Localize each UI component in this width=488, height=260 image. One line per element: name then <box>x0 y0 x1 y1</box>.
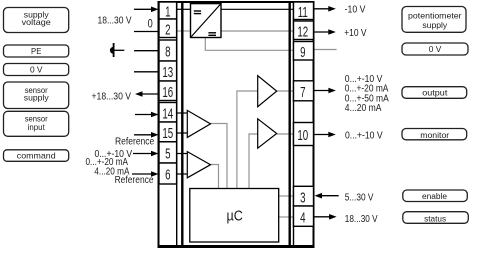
svg-text:5...30 V: 5...30 V <box>345 192 374 203</box>
terminal number 7 <box>300 84 305 101</box>
terminal cell 2 <box>159 19 177 38</box>
block bottom thick edge <box>158 245 315 248</box>
svg-text:1: 1 <box>165 4 170 21</box>
label 0...+-10 V (terminal 10) <box>345 130 383 141</box>
svg-text:+18...30 V: +18...30 V <box>92 91 132 102</box>
wire into terminal 14 <box>135 114 153 116</box>
label 0 (terminal 2) <box>148 19 153 31</box>
svg-text:7: 7 <box>300 84 305 101</box>
PE symbol <box>113 43 115 57</box>
svg-text:15: 15 <box>162 125 173 142</box>
svg-text:6: 6 <box>165 167 170 184</box>
label box: status <box>403 212 469 224</box>
label text: command <box>17 151 56 161</box>
label text: 0 V left <box>30 64 43 74</box>
wire: DC/DC to terminal 12 <box>221 30 294 32</box>
svg-text:supply: supply <box>24 93 50 103</box>
svg-text:supply: supply <box>422 20 448 30</box>
main block outline <box>159 2 314 247</box>
label box: PE <box>4 45 69 57</box>
svg-text:18...30 V: 18...30 V <box>97 15 132 26</box>
label Reference (terminal 15) <box>115 136 154 147</box>
terminal cell 12 <box>294 21 314 40</box>
svg-text:output: output <box>422 88 448 98</box>
wire: uC up to amp A4 input <box>249 134 258 189</box>
wire into terminal 8 <box>134 50 159 52</box>
terminal number 14 <box>162 105 173 122</box>
terminal number 11 <box>298 4 308 21</box>
label text: sensor supply <box>25 86 48 96</box>
svg-text:18...30 V: 18...30 V <box>345 213 378 224</box>
wire out of terminal 11 <box>314 8 331 10</box>
wire: amp A2 output down to uC <box>211 165 219 189</box>
svg-text:12: 12 <box>297 23 308 40</box>
wire: uC to terminal 3 <box>279 195 294 197</box>
terminal number 9 <box>300 44 305 61</box>
terminal number 8 <box>165 44 170 61</box>
label 5...30 V (terminal 3) <box>345 192 374 203</box>
label text: monitor <box>420 130 449 140</box>
svg-text:Reference: Reference <box>115 175 154 186</box>
label text: supply voltage <box>24 9 50 19</box>
wire out of terminal 16 <box>140 93 159 95</box>
svg-text:status: status <box>424 213 446 223</box>
label box: 0 V right <box>402 43 468 55</box>
svg-text:0 V: 0 V <box>30 64 43 74</box>
terminal cell 16 <box>159 81 177 101</box>
label text: potentiometer supply <box>408 10 462 20</box>
amp A3 (output 7) <box>258 76 277 107</box>
svg-text:monitor: monitor <box>420 130 449 140</box>
svg-text:potentiometer: potentiometer <box>408 10 462 20</box>
wire into terminal 1 <box>134 8 153 10</box>
wire: terminal 1 stub to DC/DC <box>177 8 191 10</box>
wire: terminal 6 stub to amp A2 <box>177 173 188 175</box>
amp A2 (inputs 5/6) <box>187 152 210 178</box>
wire: DC/DC bottom to terminal 9 <box>205 38 293 51</box>
svg-text:14: 14 <box>162 105 173 122</box>
label 4...20 mA (terminal 7) <box>345 103 383 114</box>
amp A1 (inputs 14/15) <box>187 110 210 137</box>
microcontroller uC box <box>190 189 279 243</box>
wire out of terminal 10 <box>314 134 331 136</box>
terminal number 16 <box>162 84 173 101</box>
svg-text:13: 13 <box>162 64 173 81</box>
label text: PE <box>31 47 42 56</box>
svg-text:4...20 mA: 4...20 mA <box>345 103 383 114</box>
terminal cell 9 <box>294 42 314 61</box>
wire: amp A1 output down to uC <box>211 124 228 189</box>
wire: terminal 14 stub to amp A1 <box>177 112 188 114</box>
svg-text:command: command <box>17 151 56 161</box>
terminal cell 11 <box>294 2 314 20</box>
label text: output <box>422 88 448 98</box>
terminal cell 4 <box>294 206 314 226</box>
label text: sensor input <box>25 114 48 124</box>
wire: uC up to amp A3 input <box>237 91 258 189</box>
wire out of terminal 4 <box>314 216 332 218</box>
wire: terminal 2 stub to DC/DC <box>177 30 191 32</box>
wire: terminal 15 stub to amp A1 <box>177 132 188 134</box>
wire into terminal 6 <box>132 173 153 175</box>
svg-text:11: 11 <box>298 4 308 21</box>
label box: monitor <box>402 129 467 140</box>
wire: amp A4 output to terminal 10 <box>277 133 294 135</box>
svg-text:3: 3 <box>300 189 305 206</box>
label 18...30 V (terminal 1) <box>97 15 132 26</box>
label 0...+-10 V (terminal 5) <box>94 148 132 159</box>
label box: output <box>402 87 467 99</box>
label box: command <box>4 150 69 162</box>
label text: status <box>424 213 446 223</box>
svg-text:0...+-10 V: 0...+-10 V <box>345 130 383 141</box>
label box: sensor supply <box>4 82 69 109</box>
terminal cell 5 <box>159 142 177 163</box>
wire into terminal 13 <box>134 71 159 73</box>
svg-text:2: 2 <box>165 21 170 38</box>
svg-text:-10 V: -10 V <box>345 4 367 15</box>
amp A4 (output 10) <box>258 119 277 148</box>
svg-text:16: 16 <box>162 84 173 101</box>
svg-text:10: 10 <box>297 127 308 144</box>
terminal number 13 <box>162 64 173 81</box>
label 0...+-10 V (terminal 7) <box>345 73 383 84</box>
terminal number 5 <box>165 146 170 163</box>
label Reference (terminal 6) <box>115 175 154 186</box>
terminal cell 3 <box>294 186 314 206</box>
label 0...+-20 mA (terminal 7) <box>345 83 389 94</box>
svg-text:+10 V: +10 V <box>344 27 367 38</box>
wire: DC/DC to terminal 11 <box>221 8 294 10</box>
svg-text:0 V: 0 V <box>429 44 442 54</box>
terminal cell 1 <box>159 2 177 19</box>
wire: amp A3 output to terminal 7 <box>277 90 294 92</box>
wire out of terminal 7 <box>314 90 331 92</box>
terminal cell 10 <box>294 123 314 146</box>
svg-text:5: 5 <box>165 146 170 163</box>
terminal cell 15 <box>159 122 177 142</box>
terminal number 4 <box>300 209 305 226</box>
left terminal rail <box>176 2 178 246</box>
svg-text:PE: PE <box>31 47 42 56</box>
block inner left edge <box>181 2 183 247</box>
wire out of terminal 12 <box>314 31 331 33</box>
terminal number 1 <box>165 4 170 21</box>
svg-text:Reference: Reference <box>115 136 154 147</box>
terminal number 12 <box>297 23 308 40</box>
label box: enable <box>403 190 468 202</box>
label 0...+-20 mA (terminal 5) <box>85 156 128 167</box>
label -10 V (terminal 11) <box>345 4 367 15</box>
terminal number 2 <box>165 21 170 38</box>
svg-text:4: 4 <box>300 209 305 226</box>
terminal cell 14 <box>159 103 177 123</box>
terminal cell 7 <box>294 81 314 101</box>
wire: terminal 9 external line <box>314 49 337 51</box>
terminal number 6 <box>165 167 170 184</box>
terminal number 15 <box>162 125 173 142</box>
wire: terminal 5 stub to amp A2 <box>177 153 188 155</box>
block inner right edge <box>289 2 291 247</box>
label +10 V (terminal 12) <box>344 27 367 38</box>
svg-text:9: 9 <box>300 44 305 61</box>
terminal cell 8 <box>159 40 177 61</box>
label 0...+-50 mA (terminal 7) <box>345 93 390 104</box>
terminal number 3 <box>300 189 305 206</box>
terminal number 10 <box>297 127 308 144</box>
right terminal rail <box>293 2 295 246</box>
svg-text:voltage: voltage <box>22 17 51 27</box>
label box: potentiometer supply <box>402 7 466 33</box>
label box: 0 V left <box>4 64 69 76</box>
svg-text:8: 8 <box>165 44 170 61</box>
DC/DC converter U1 <box>191 4 222 38</box>
wire: uC to terminal 4 <box>279 216 294 218</box>
label +18...30 V (terminal 16) <box>92 91 132 102</box>
svg-text:enable: enable <box>422 191 447 201</box>
terminal cell 6 <box>159 163 177 184</box>
wire into terminal 5 <box>133 153 153 155</box>
label text: enable <box>422 191 447 201</box>
label box: sensor input <box>4 111 69 136</box>
label text: 0 V right <box>429 44 442 54</box>
label 18...30 V (terminal 4) <box>345 213 378 224</box>
terminal cell 13 <box>159 61 177 81</box>
microcontroller uC label <box>227 207 243 224</box>
svg-text:input: input <box>28 123 46 132</box>
wire into terminal 2 <box>134 31 159 33</box>
label box: supply voltage <box>4 8 69 33</box>
svg-text:µC: µC <box>227 207 243 224</box>
wire into terminal 3 <box>320 195 339 197</box>
wire into terminal 15 <box>134 134 153 136</box>
label 4...20 mA (terminal 6) <box>94 166 129 177</box>
svg-text:0: 0 <box>148 19 153 31</box>
